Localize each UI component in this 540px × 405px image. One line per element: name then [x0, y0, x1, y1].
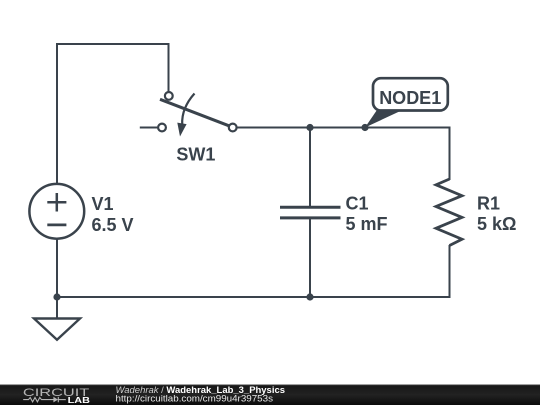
svg-text:V1: V1: [92, 194, 114, 214]
switch toggle arrow: [182, 94, 194, 125]
switch blade: [160, 99, 229, 126]
wire left upper vertical: [56, 44, 58, 184]
svg-text:R1: R1: [477, 194, 500, 214]
svg-text:5 mF: 5 mF: [346, 214, 388, 234]
wire right vertical upper: [449, 128, 451, 180]
label R1 value: [477, 194, 516, 235]
svg-text:NODE1: NODE1: [379, 88, 441, 108]
CircuitLab logo: [23, 387, 91, 405]
svg-text:5 kΩ: 5 kΩ: [477, 214, 516, 234]
wire switch left stub: [140, 127, 158, 129]
switch SW1: [140, 92, 237, 137]
node NODE1 flag: [365, 78, 448, 127]
node junction dot (NODE1 anchor): [361, 124, 368, 131]
wire bottom horizontal: [57, 296, 450, 298]
node junction dot (cap top): [306, 124, 313, 131]
wire left lower vertical: [56, 239, 58, 297]
svg-text:C1: C1: [346, 194, 369, 214]
node junction dot (ground): [53, 293, 60, 300]
switch terminal circle top: [165, 92, 173, 100]
wire ground stub: [56, 297, 58, 318]
wire mid horizontal: [237, 127, 450, 129]
label V1 value: [92, 194, 134, 235]
wire switch drop: [168, 44, 170, 92]
svg-text:http://circuitlab.com/cm99u4r3: http://circuitlab.com/cm99u4r39753s: [116, 394, 274, 404]
footer bar: [0, 384, 540, 405]
resistor R1: [436, 179, 462, 246]
node junction dot (cap bottom): [306, 293, 313, 300]
label C1 value: [346, 194, 388, 235]
wire right vertical lower: [449, 246, 451, 297]
wire capacitor bottom: [309, 220, 311, 297]
wire capacitor top: [309, 128, 311, 206]
svg-text:6.5 V: 6.5 V: [92, 215, 134, 235]
svg-text:SW1: SW1: [176, 145, 215, 165]
voltage source V1: [29, 184, 84, 239]
wire top horizontal: [57, 43, 169, 45]
switch terminal circle right: [229, 124, 237, 132]
ground: [34, 319, 80, 340]
switch terminal circle left: [158, 124, 166, 132]
svg-text:LAB: LAB: [68, 396, 91, 405]
capacitor C1: [280, 207, 341, 218]
